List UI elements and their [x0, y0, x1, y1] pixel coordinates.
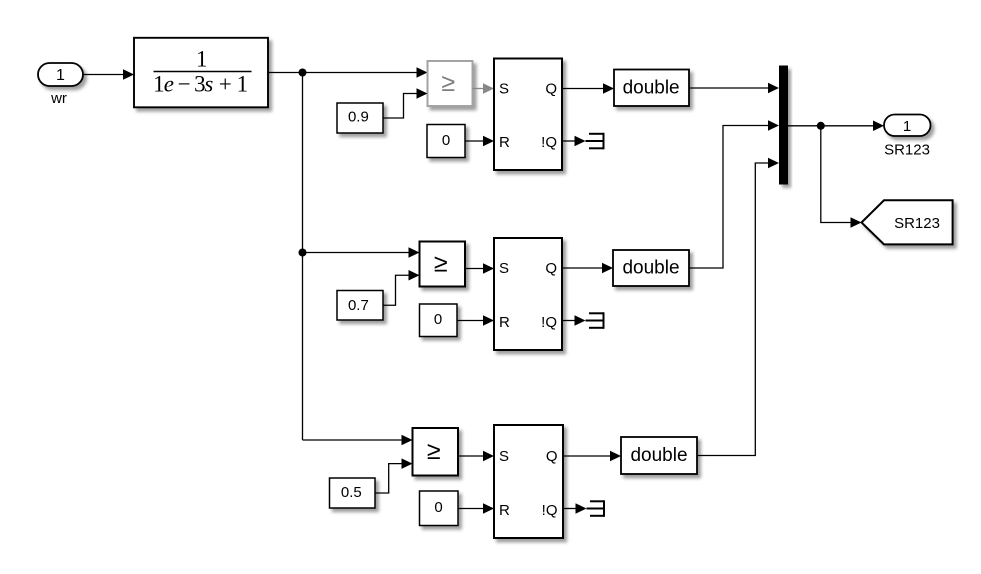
- wire GE2 to SR2 S input: [465, 263, 494, 274]
- svg-text:double: double: [623, 77, 680, 98]
- relational operator block GE2: [420, 242, 466, 287]
- svg-text:SR123: SR123: [884, 142, 930, 159]
- wire SR2 !Q to terminator 2: [562, 315, 586, 326]
- terminator block T2: [586, 312, 604, 329]
- wire constant 0.9 to GE1: [383, 88, 428, 118]
- svg-text:0.7: 0.7: [348, 297, 369, 314]
- node A branch dot row1: [299, 69, 307, 77]
- svg-text:double: double: [630, 445, 687, 466]
- svg-text:wr: wr: [50, 90, 67, 107]
- svg-text:≥: ≥: [441, 69, 455, 97]
- wire constant 0 to SR3 R input: [458, 503, 494, 514]
- wire SR2 Q to double2: [562, 263, 613, 274]
- wire constant 0 to SR2 R input: [457, 315, 494, 326]
- wire vertical trunk row2 to row3: [302, 253, 304, 441]
- svg-text:≥: ≥: [434, 250, 448, 278]
- S-R flip-flop block SR1: [494, 59, 562, 171]
- wire double2 to mux input 2: [689, 120, 779, 268]
- mux block: [779, 66, 788, 185]
- svg-text:1: 1: [903, 118, 911, 135]
- inport port 1 (wr): [38, 63, 83, 86]
- constant block 0.9: [337, 103, 383, 133]
- S-R flip-flop block SR3: [494, 425, 563, 538]
- svg-text:R: R: [499, 134, 510, 151]
- wire constant 0.5 to GE3: [375, 458, 413, 493]
- svg-text:0.5: 0.5: [341, 484, 362, 501]
- relational operator block GE1 (grayed): [428, 61, 473, 106]
- goto tag block SR123: [862, 200, 953, 244]
- svg-text:Q: Q: [545, 260, 557, 277]
- svg-text:0.9: 0.9: [348, 109, 369, 126]
- svg-text:!Q: !Q: [541, 314, 557, 331]
- transfer function block 1/(1e-3s+1): [134, 38, 268, 108]
- terminator block T3: [587, 500, 605, 517]
- wire transfer function to relational operator 1: [268, 67, 428, 78]
- S-R flip-flop block SR2: [494, 238, 562, 350]
- data type conversion block double2: [613, 250, 689, 286]
- wire SR3 !Q to terminator 3: [563, 503, 587, 514]
- constant block 0 (row3): [420, 491, 459, 526]
- wire trunk to GE3: [303, 435, 413, 446]
- wire inport to transfer function: [83, 69, 134, 80]
- constant block 0 (row1): [427, 125, 465, 158]
- relational operator block GE3: [413, 428, 459, 476]
- wire SR3 Q to double3: [563, 451, 621, 462]
- svg-text:S: S: [499, 448, 509, 465]
- data type conversion block double3: [621, 437, 697, 474]
- constant block 0.7: [337, 291, 383, 321]
- svg-text:double: double: [622, 258, 679, 279]
- svg-text:R: R: [499, 502, 510, 519]
- svg-text:0: 0: [434, 311, 442, 328]
- svg-text:S: S: [499, 260, 509, 277]
- wire node C to goto tag: [821, 126, 862, 228]
- wire mux output to outport: [788, 121, 884, 132]
- svg-text:Q: Q: [546, 448, 558, 465]
- wire constant 0.7 to GE2: [383, 270, 420, 305]
- terminator block T1: [586, 133, 604, 150]
- svg-text:SR123: SR123: [894, 215, 940, 232]
- node C branch dot mux output: [817, 122, 825, 130]
- svg-text:1: 1: [56, 67, 65, 84]
- svg-text:S: S: [499, 80, 509, 97]
- wire double1 to mux input 1: [689, 83, 779, 94]
- svg-text:≥: ≥: [427, 437, 441, 465]
- wire GE1 to SR1 S input (gray): [473, 83, 495, 94]
- svg-text:1: 1: [196, 47, 208, 72]
- wire SR1 Q to double1: [562, 83, 614, 94]
- constant block 0.5: [330, 478, 376, 508]
- data type conversion block double1: [614, 70, 689, 107]
- wire SR1 !Q to terminator 1: [562, 136, 586, 147]
- node B branch dot row2: [299, 249, 307, 257]
- wire double3 to mux input 3: [697, 158, 779, 456]
- constant block 0 (row2): [420, 304, 458, 337]
- wire trunk to GE2: [303, 247, 420, 258]
- wire constant 0 to SR1 R input: [465, 136, 494, 147]
- svg-text:!Q: !Q: [542, 502, 558, 519]
- svg-text:Q: Q: [545, 80, 557, 97]
- svg-text:!Q: !Q: [541, 134, 557, 151]
- svg-text:R: R: [499, 314, 510, 331]
- svg-text:0: 0: [434, 499, 442, 516]
- wire GE3 to SR3 S input: [458, 451, 494, 462]
- svg-text:0: 0: [442, 132, 450, 149]
- outport port 1 (SR123): [884, 115, 931, 137]
- wire vertical trunk row1 to row2: [302, 73, 304, 253]
